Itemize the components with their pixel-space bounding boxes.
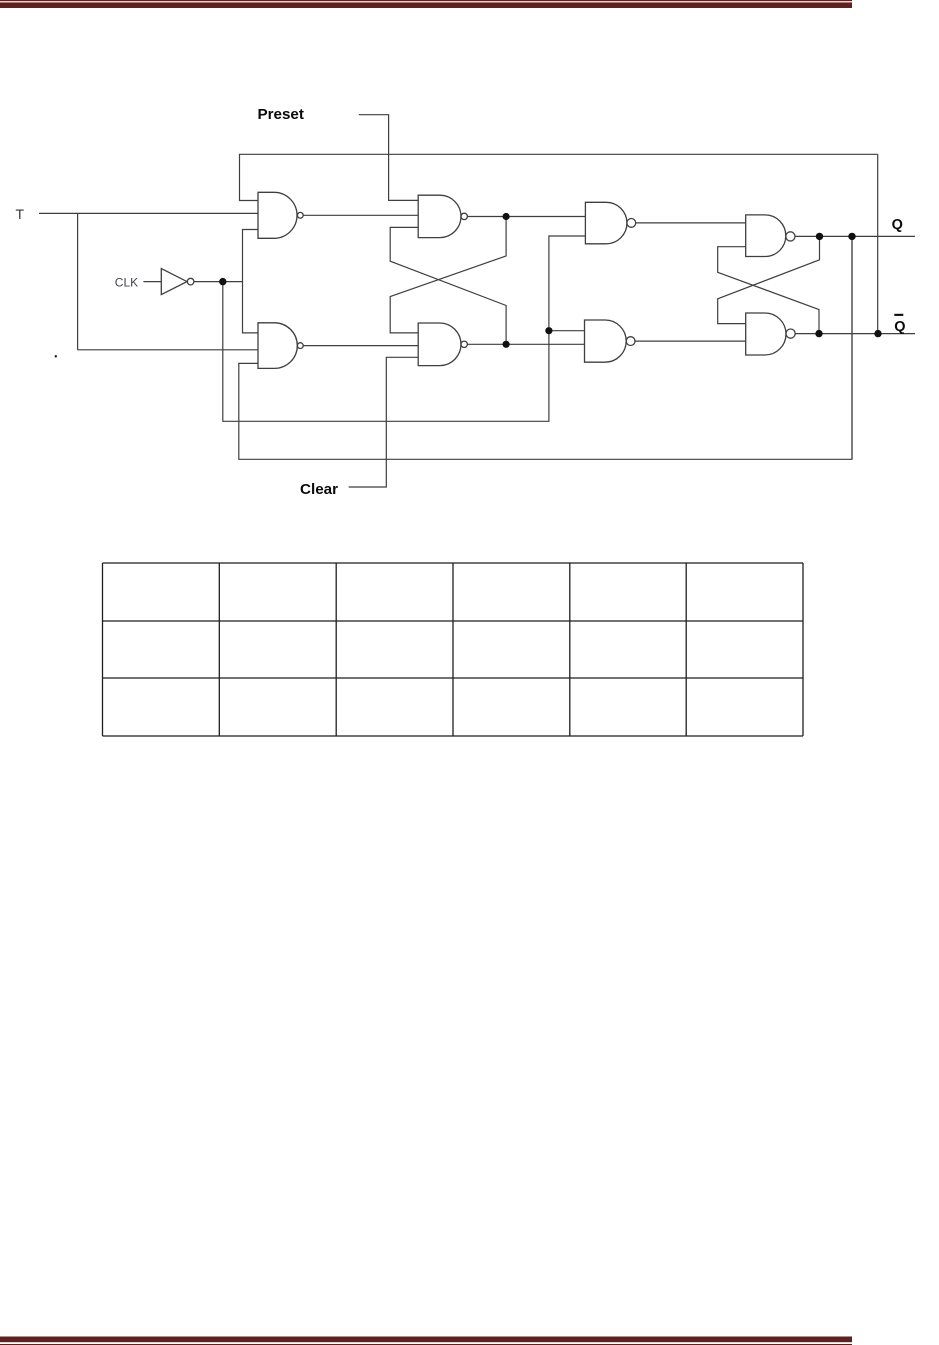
wire U3 output rail to U5 bbox=[467, 216, 585, 218]
output bubble U7 bbox=[786, 232, 795, 241]
wire U2 output to U4 bbox=[303, 345, 418, 347]
wire clock vertical to U1 and U2 inputs bbox=[243, 230, 259, 333]
junction Qbar feedback node bbox=[874, 330, 881, 337]
junction clock node bbox=[219, 278, 226, 285]
output bubble U4 bbox=[461, 341, 467, 347]
junction Qbar output node bbox=[815, 330, 822, 337]
output bubble U3 bbox=[461, 213, 467, 219]
wire inverter output to junction bbox=[194, 281, 243, 283]
junction Q feedback node bbox=[848, 233, 855, 240]
wire Qbar output line bbox=[795, 333, 915, 335]
output bubble U8 bbox=[786, 329, 795, 338]
wire top feedback Qbar to U1 bbox=[240, 154, 878, 200]
wire T input horizontal bbox=[39, 212, 258, 214]
svg-text:Clear: Clear bbox=[300, 481, 338, 498]
nand gate U7 bbox=[746, 215, 786, 257]
wire T branch vertical bbox=[77, 213, 79, 349]
nand gate U4 bbox=[418, 323, 461, 366]
page top border thin rule bbox=[0, 0, 852, 1]
nand gate U3 bbox=[418, 195, 461, 237]
wire Q feedback drop bbox=[851, 236, 853, 459]
junction clock2 tap node bbox=[545, 327, 552, 334]
wire U5 output to U7 bbox=[636, 222, 746, 224]
output bubble U6 bbox=[626, 337, 635, 346]
wire latch1 cross lower to upper bbox=[390, 227, 506, 344]
wire T branch horizontal to U2 bbox=[78, 349, 258, 351]
output bubble U2 bbox=[297, 343, 303, 349]
wire Preset stub bbox=[359, 115, 418, 201]
wire Q output line bbox=[795, 235, 915, 237]
wire latch2 cross upper to lower bbox=[718, 236, 820, 323]
truth table grid bbox=[103, 563, 804, 736]
wire Qbar feedback vertical bbox=[877, 154, 879, 333]
junction latch1 upper output node bbox=[503, 213, 510, 220]
svg-text:Preset: Preset bbox=[258, 106, 304, 123]
nand gate U6 bbox=[585, 320, 627, 362]
svg-text:Q: Q bbox=[892, 217, 903, 233]
svg-text:CLK: CLK bbox=[115, 276, 138, 290]
wire latch2 cross lower to upper bbox=[718, 247, 819, 334]
output bubble inverter bbox=[187, 278, 194, 285]
inverter CLK bbox=[161, 269, 187, 295]
output bubble U1 bbox=[297, 212, 303, 218]
wire Q feedback loop to U2 bbox=[239, 236, 852, 459]
nand gate U2 bbox=[258, 323, 297, 369]
wire Clear stub bbox=[349, 357, 419, 487]
label Qbar overline bbox=[894, 314, 903, 316]
wire clock2 tap to U6 bbox=[549, 330, 585, 332]
svg-text:T: T bbox=[16, 206, 25, 222]
wire latch1 cross upper to lower bbox=[390, 217, 506, 333]
stray period mark bbox=[55, 355, 57, 357]
nand gate U1 bbox=[258, 192, 297, 238]
nand gate U8 bbox=[746, 313, 786, 355]
wire U4 output rail to U6 bbox=[467, 343, 584, 345]
page bottom border thick rule bbox=[0, 1337, 852, 1343]
wire U6 output to U8 bbox=[635, 340, 746, 342]
junction Q output node bbox=[816, 233, 823, 240]
output bubble U5 bbox=[627, 219, 636, 228]
svg-text:Q: Q bbox=[894, 319, 905, 335]
page bottom border thin rule bbox=[0, 1344, 852, 1345]
junction latch1 lower output node bbox=[503, 341, 510, 348]
page top border thick rule bbox=[0, 2, 852, 8]
wire clock drop from junction bbox=[223, 236, 586, 421]
wire CLK label to inverter bbox=[143, 281, 161, 283]
wire U1 output to U3 bbox=[303, 214, 418, 216]
nand gate U5 bbox=[585, 202, 627, 244]
